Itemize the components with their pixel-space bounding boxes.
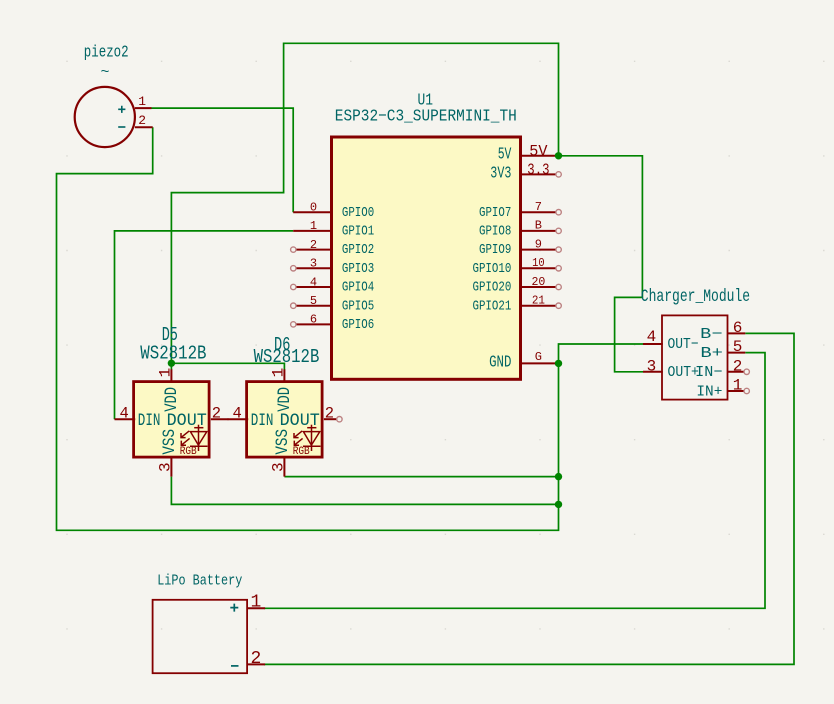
svg-text:5: 5: [733, 338, 743, 356]
battery pin 1 stub: [247, 607, 265, 609]
D6 DOUT unconnected circle: [337, 417, 342, 422]
svg-text:GPIO6: GPIO6: [342, 318, 374, 333]
piezo transducer piezo2: [75, 43, 153, 147]
svg-text:2: 2: [733, 357, 743, 375]
svg-text:GPIO5: GPIO5: [342, 299, 374, 314]
svg-text:GPIO2: GPIO2: [342, 243, 374, 258]
svg-text:3: 3: [647, 357, 657, 375]
charger pin B+ (number 5): [727, 352, 745, 354]
D5 body: [134, 382, 210, 458]
svg-text:9: 9: [535, 237, 542, 251]
junction GND net at D6 VSS wire: [555, 473, 562, 480]
D5 pin VDD (number 1) top: [170, 369, 172, 382]
battery body: [153, 600, 248, 673]
svg-text:1: 1: [269, 368, 287, 378]
U1 pin GPIO1 (number 1) left: [293, 230, 331, 232]
D6 internal LED symbol: [294, 425, 321, 451]
U1 pin GPIO8 (number B) right: [522, 230, 556, 232]
svg-text:2: 2: [138, 113, 146, 128]
svg-text:ESP32−C3_SUPERMINI_TH: ESP32−C3_SUPERMINI_TH: [335, 107, 517, 126]
D6 pin VSS (number 3) bottom: [283, 457, 285, 477]
svg-text:B: B: [535, 219, 542, 233]
svg-text:3: 3: [269, 462, 287, 472]
svg-text:4: 4: [310, 275, 317, 289]
svg-text:GPIO7: GPIO7: [479, 206, 511, 221]
svg-text:1: 1: [250, 593, 261, 613]
U1 pin GPIO20 (number 20) right: [522, 286, 556, 288]
svg-text:G: G: [535, 350, 542, 364]
D5 pin DIN (number 4) left: [115, 418, 136, 420]
charger IN- unconnected circle: [744, 369, 749, 374]
RGB LED D5 WS2812B: [115, 324, 229, 476]
charger IN+ unconnected circle: [744, 388, 749, 393]
svg-text:DIN: DIN: [138, 411, 161, 431]
svg-text:10: 10: [532, 256, 545, 270]
svg-text:WS2812B: WS2812B: [254, 346, 320, 368]
piezo2 pin 2 stub: [135, 126, 153, 128]
svg-text:3: 3: [156, 462, 174, 472]
D6 pin DIN (number 4) left: [228, 418, 249, 420]
D6 body: [247, 382, 323, 458]
svg-text:IN+: IN+: [696, 383, 722, 400]
piezo2 pin 1 stub: [135, 107, 152, 109]
junction 5V net at D5 VDD: [168, 360, 175, 367]
svg-text:4: 4: [647, 328, 657, 346]
svg-text:GPIO4: GPIO4: [342, 281, 374, 296]
svg-text:GPIO0: GPIO0: [342, 206, 374, 221]
svg-text:5: 5: [310, 294, 317, 308]
svg-text:VSS: VSS: [160, 429, 180, 455]
battery LiPo Battery: [153, 571, 266, 673]
U1 pin GPIO4 (number 4) left: [296, 286, 331, 288]
svg-text:21: 21: [532, 294, 545, 308]
D6 pin DOUT (number 2) right: [324, 418, 337, 420]
svg-text:VSS: VSS: [273, 429, 293, 455]
wire piezo2 pin1 to U1 GPIO0: [152, 108, 294, 212]
U1 pin GPIO5 (number 5) left: [296, 305, 331, 307]
wire U1 GPIO1 to D5 DIN: [115, 231, 294, 419]
U1 pin GPIO7 (number 7) right: [522, 211, 556, 213]
U1 pin GPIO6 (number 6) left: [296, 323, 331, 325]
svg-text:GPIO10: GPIO10: [473, 262, 512, 277]
svg-text:3.3: 3.3: [527, 161, 549, 179]
svg-text:GPIO20: GPIO20: [473, 281, 512, 296]
svg-text:OUT+: OUT+: [668, 364, 699, 381]
svg-text:0: 0: [310, 201, 317, 215]
svg-text:VDD: VDD: [162, 387, 182, 412]
D6 pin VDD (number 1) top: [283, 369, 285, 382]
wire D5 VDD to D6 VDD: [171, 363, 284, 369]
charger pin IN- (number 2): [727, 371, 744, 373]
svg-text:3V3: 3V3: [490, 164, 511, 183]
minus mark: [118, 126, 125, 128]
piezo body circle: [75, 87, 135, 147]
svg-text:4: 4: [120, 405, 129, 423]
svg-text:1: 1: [733, 377, 743, 395]
svg-text:20: 20: [531, 275, 545, 289]
charger pin OUT+ (number 3): [643, 371, 663, 373]
junction GND net at D5 VSS wire: [555, 501, 562, 508]
RGB LED D6 WS2812B: [228, 334, 342, 476]
svg-text:RGB: RGB: [180, 446, 197, 458]
D5 internal LED symbol: [181, 425, 208, 451]
charger pin IN+ (number 1): [727, 390, 744, 392]
junction GND net at U1 GND pin: [555, 360, 562, 367]
svg-text:OUT−: OUT−: [668, 336, 699, 353]
svg-text:2: 2: [325, 405, 334, 423]
U1 pin GND (number G) right: [522, 362, 559, 364]
junction 5V net at U1 5V pin: [555, 152, 562, 159]
U1 pin GPIO0 (number 0) left: [293, 211, 331, 213]
wire U1 5V to charger OUT+: [559, 156, 644, 372]
svg-text:GPIO3: GPIO3: [342, 262, 374, 277]
svg-text:GPIO8: GPIO8: [479, 225, 511, 240]
battery pin 2 stub: [247, 663, 265, 665]
battery minus mark: [231, 665, 239, 667]
svg-text:GPIO1: GPIO1: [342, 225, 374, 240]
svg-text:GPIO21: GPIO21: [473, 299, 512, 314]
D5 pin VSS (number 3) bottom: [170, 457, 172, 477]
D5 pin DOUT (number 2) right: [211, 418, 229, 420]
svg-text:B−: B−: [700, 326, 722, 343]
U1 pin GPIO10 (number 10) right: [522, 267, 556, 269]
svg-text:6: 6: [733, 319, 743, 337]
svg-text:4: 4: [233, 405, 242, 423]
IC U1 ESP32-C3_SUPERMINI_TH: [291, 90, 562, 379]
wire 5V net: U1 5V up-around to D5 VDD: [171, 43, 558, 369]
U1 pin 3V3 (number 3.3) right: [522, 173, 556, 175]
charger pin OUT- (number 4): [643, 343, 663, 345]
svg-text:B+: B+: [700, 345, 723, 362]
wire D6 VSS to GND net: [284, 476, 558, 478]
svg-text:GPIO9: GPIO9: [479, 243, 511, 258]
svg-text:GND: GND: [489, 353, 511, 372]
charger module Charger_Module: [641, 287, 750, 400]
svg-text:3: 3: [310, 257, 317, 271]
svg-text:7: 7: [535, 200, 542, 214]
svg-text:5V: 5V: [498, 144, 512, 163]
svg-text:1: 1: [310, 219, 317, 233]
svg-text:1: 1: [138, 94, 146, 109]
U1 pin 5V (number 5V) right: [522, 155, 559, 157]
svg-text:IN−: IN−: [695, 364, 722, 381]
svg-text:2: 2: [212, 405, 221, 423]
svg-text:1: 1: [156, 368, 174, 378]
wire GND net: piezo2 pin2 around to charger OUT- and U1 GND: [57, 127, 644, 530]
svg-text:2: 2: [250, 649, 261, 669]
svg-text:5V: 5V: [529, 142, 548, 160]
charger pin B- (number 6): [727, 332, 745, 334]
svg-text:RGB: RGB: [293, 446, 310, 458]
U1 pin GPIO3 (number 3) left: [296, 267, 331, 269]
svg-text:LiPo Battery: LiPo Battery: [157, 571, 242, 589]
plus mark: [118, 106, 125, 113]
svg-text:~: ~: [100, 64, 109, 81]
battery plus mark: [230, 604, 238, 612]
U1 pin GPIO9 (number 9) right: [522, 249, 556, 251]
U1 body: [332, 137, 521, 379]
svg-text:6: 6: [310, 313, 317, 327]
wire D5 VSS to GND net: [171, 477, 558, 505]
svg-text:2: 2: [310, 238, 317, 252]
U1 pin GPIO21 (number 21) right: [522, 305, 556, 307]
U1 pin GPIO2 (number 2) left: [296, 249, 331, 251]
svg-text:Charger_Module: Charger_Module: [641, 287, 750, 307]
svg-text:DIN: DIN: [251, 411, 274, 431]
svg-text:VDD: VDD: [275, 387, 295, 412]
charger body: [662, 315, 728, 399]
svg-text:piezo2: piezo2: [84, 43, 129, 62]
wire charger B+ to battery pin1: [264, 353, 765, 609]
wire charger B- to battery pin2: [264, 333, 794, 664]
